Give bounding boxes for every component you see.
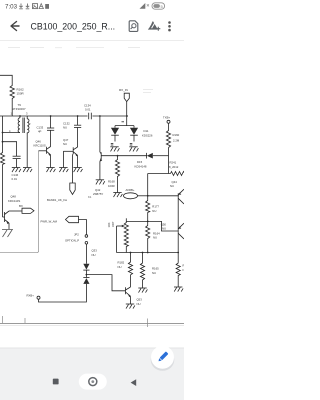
svg-text:KRC110S: KRC110S [8,199,20,203]
svg-text:OPTION_P: OPTION_P [65,238,79,242]
capacitor C132 [77,116,79,125]
wire left rail [2,116,4,151]
wire varicap feed [126,116,128,126]
resistor R165 [142,253,144,263]
wire diodes down to RXB+ [39,284,87,302]
ground (Q42) [96,180,105,185]
ground (Q47 emitter) [73,168,82,173]
svg-text:0.01: 0.01 [12,177,18,181]
wire Q42 base run [101,155,146,157]
svg-text:TXB+: TXB+ [163,116,170,120]
resistor R168 [115,156,119,193]
svg-text:2.2M: 2.2M [173,139,180,143]
svg-text:150R: 150R [17,92,25,96]
svg-text:D15: D15 [137,160,143,164]
ground (D11a) [110,147,119,152]
resistor R160 [166,129,170,148]
wire main bus [0,115,88,117]
svg-text:CB100_200_250_R...: CB100_200_250_R... [31,21,116,31]
wire to BAND1 flag [72,154,74,183]
ground (C146) [12,168,21,173]
svg-text:D11: D11 [144,129,149,133]
ground (R165) [138,288,147,293]
svg-text:R241: R241 [170,161,177,165]
diode D11b (varicap) [130,128,138,135]
wire T9 pin4 to left rail [3,132,21,134]
svg-text:RXB+: RXB+ [27,294,35,298]
wire T9 pin2 down [26,133,28,168]
svg-text:JP2: JP2 [74,232,79,236]
wire chain vertical [147,174,149,200]
svg-text:R182: R182 [118,261,125,265]
transistor Q53 [125,287,127,294]
svg-text:NU: NU [153,236,157,240]
svg-text:NU: NU [92,253,96,257]
svg-text:7:03: 7:03 [5,4,18,11]
ground (R166) [174,287,183,292]
capacitor C134 (series in bus) [88,113,90,120]
svg-text:2SB75Y: 2SB75Y [93,192,103,196]
svg-text:Q53: Q53 [137,298,143,302]
svg-text:NU: NU [137,302,141,306]
svg-text:NU: NU [118,265,122,269]
svg-text:NU: NU [63,126,67,130]
svg-text:R160: R160 [173,133,180,137]
svg-text:AVRB+: AVRB+ [126,188,135,192]
TOOLBAR [0,21,184,41]
BOTTOM BAR [0,346,184,400]
wire bottom bus [117,252,179,254]
svg-text:100R: 100R [108,184,115,188]
svg-text:0.01: 0.01 [85,108,91,112]
svg-text:BAND1_UK_Fw: BAND1_UK_Fw [47,198,68,202]
ground (D11b) [129,147,138,152]
svg-text:NU: NU [152,209,156,213]
resistor R177 [146,199,150,221]
node dots on bus [19,115,128,117]
diode D11a (varicap) [111,128,119,135]
svg-text:NU: NU [152,271,156,275]
wire R162 to bus [11,100,13,116]
diode D33b [83,277,89,279]
node RXB+ [37,296,40,299]
svg-text:R168: R168 [108,180,115,184]
node BAND1_UK_Fw flag [70,183,75,195]
PAGE BOTTOM EDGE [0,316,184,327]
svg-text:NU: NU [162,227,166,231]
resistor R164 [146,221,150,252]
svg-text:KDS4148: KDS4148 [135,165,147,169]
ground (T9 secondary) [23,168,32,173]
svg-text:Q33: Q33 [92,249,98,253]
resistor R162 [10,84,14,100]
ground (Q48 emitter, large) [2,230,13,238]
STATUS BAR [5,3,165,11]
faint top remnants [8,48,153,93]
wire Q50 base [148,221,179,231]
wire top-left feed [0,75,12,84]
wire AVRB+ to Q44 base [148,195,179,197]
svg-text:KDS226: KDS226 [142,134,153,138]
svg-text:8_2012: 8_2012 [169,165,179,169]
transistor Q42 [99,116,101,152]
svg-text:NU: NU [170,184,174,188]
svg-text:BX: BX [19,204,23,208]
svg-text:2T4S003Y: 2T4S003Y [13,107,26,111]
svg-text:10K: 10K [107,222,111,227]
diode D33a [83,264,89,270]
ground (Q46 emitter) [46,168,55,173]
svg-text:PWR_W_AM: PWR_W_AM [41,220,58,224]
diode D15 [147,153,153,159]
svg-text:K1: K1 [88,195,92,199]
svg-text:RX_IN: RX_IN [119,88,128,92]
resistor R166 [176,263,180,287]
ground (Q53) [126,304,135,309]
ground (R168) [113,193,122,198]
svg-text:4P: 4P [38,130,42,134]
potentiometer VR7 [125,218,127,221]
wire Q53 base [86,275,125,291]
resistor (left rail) [0,151,4,165]
ground (Q47 base leg) [59,168,68,173]
resistor R182 [130,253,132,262]
svg-text:R165: R165 [152,267,159,271]
wire long (Q46 base run) [0,151,39,253]
capacitor C133 [50,116,52,128]
svg-text:R: R [183,264,185,268]
svg-text:N: N [183,268,185,272]
svg-text:VR7: VR7 [111,221,115,227]
capacitor C146 [3,142,17,157]
wire PWR flag to JP2 [79,220,87,235]
resistor R241 [148,173,171,175]
svg-text:NU: NU [63,142,67,146]
svg-text:KRC110S: KRC110S [34,144,46,148]
